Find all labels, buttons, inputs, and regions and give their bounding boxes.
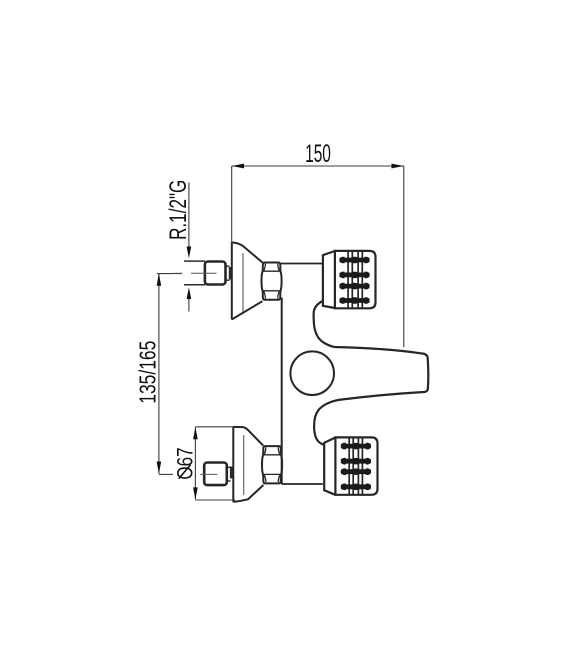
svg-text:R.1/2"G: R.1/2"G <box>165 180 192 240</box>
svg-text:150: 150 <box>305 140 331 168</box>
svg-text:O67: O67 <box>173 447 198 479</box>
svg-text:135/165: 135/165 <box>135 341 161 404</box>
